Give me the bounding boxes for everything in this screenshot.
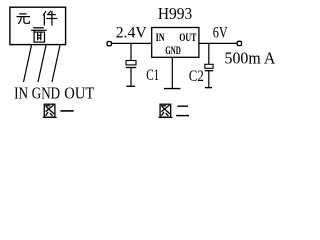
svg-text:GND: GND	[32, 84, 60, 103]
output terminal	[237, 41, 241, 45]
svg-text:OUT: OUT	[64, 84, 95, 103]
input terminal	[107, 42, 111, 46]
component-side box (figure 1 package outline)	[10, 7, 66, 44]
wire: U1 GND down	[171, 57, 173, 88]
svg-text:6V: 6V	[213, 24, 228, 41]
caption 图一 glyph 一	[60, 110, 73, 112]
lead GND (middle pin of package)	[38, 45, 46, 82]
svg-text:500m A: 500m A	[225, 48, 276, 67]
capacitor C2 (polarized: hollow top plate)	[205, 64, 214, 87]
label 面 (side) glyph	[32, 30, 46, 42]
svg-text:GND: GND	[165, 45, 181, 57]
underscore mark between 元 and 件	[33, 27, 44, 29]
caption 图一 glyph 图	[43, 104, 56, 117]
ground bar under C1	[126, 85, 135, 87]
lead IN (left pin of package)	[24, 45, 32, 82]
svg-text:C1: C1	[146, 67, 159, 84]
svg-text:IN: IN	[14, 84, 28, 103]
capacitor C1 (polarized: hollow top plate)	[126, 61, 136, 87]
svg-text:OUT: OUT	[179, 32, 196, 44]
caption 图二 glyph 二	[176, 106, 189, 115]
wire: input terminal to U1 IN	[112, 42, 152, 44]
svg-text:H993: H993	[158, 4, 192, 23]
ground bar under U1	[164, 88, 181, 90]
label 件 glyph	[44, 11, 57, 25]
ground bar under C2	[205, 87, 212, 89]
wire: U1 OUT to output terminal	[199, 42, 237, 44]
svg-text:IN: IN	[156, 32, 165, 44]
svg-text:2.4V: 2.4V	[116, 24, 147, 41]
regulator box U1 (H993)	[152, 28, 199, 58]
caption 图二 glyph 图	[159, 104, 172, 117]
wire: output junction down to C2	[208, 43, 210, 64]
wire: input junction down to C1	[130, 43, 132, 60]
lead OUT (right pin of package)	[52, 45, 60, 82]
label 元 (component) glyph	[17, 14, 29, 24]
svg-text:C2: C2	[189, 68, 204, 85]
